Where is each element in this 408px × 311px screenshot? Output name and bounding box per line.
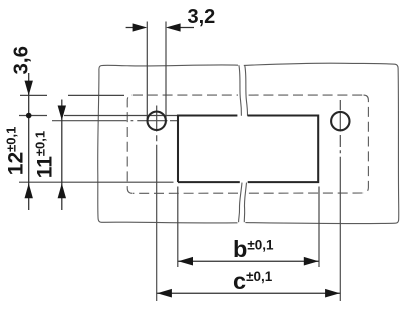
arrow 3,2 left [133,23,148,31]
cutout rectangle [178,116,318,183]
extension line dashed-top reference y=95.4 [20,94,124,96]
dimension line c [157,292,341,294]
extension line cutout-top reference y=115.5 [19,115,178,117]
arrow 3,6 down [25,81,33,96]
arrow 11 down [58,106,66,121]
dimension line 11 [61,100,63,211]
break line bottom right [244,183,246,223]
arrow b left [178,257,193,266]
extension line b left x=177.8 [177,187,179,268]
dot terminator 12 top [26,113,32,119]
horizontal centerline left hole [52,120,178,122]
hole H2 right [331,112,349,130]
arrow b right [304,257,319,266]
extension line hole tangent left x=147.3 [146,22,148,120]
svg-text:3,6: 3,6 [10,46,33,75]
arrow c left [157,289,172,298]
extension line b right x=319 [318,187,320,268]
svg-text:3,2: 3,2 [188,6,216,28]
extension line hole tangent right x=166 [165,22,167,120]
arrow 11 up [58,183,66,198]
extension line cutout-bottom reference y=182 [19,181,174,183]
break line bottom left [239,183,242,223]
arrow 3,2 right [166,23,181,31]
arrow c right [325,289,340,298]
panel right half outline [244,63,399,223]
dimension line 3,6 / 12 shared [28,73,30,210]
dimension line b [178,260,319,262]
panel left half outline [98,65,238,223]
vertical centerline left hole [156,106,158,302]
arrow 12 up [25,183,33,198]
dimension line 3,2 [126,27,194,29]
dashed clearance outline [127,95,368,193]
vertical centerline right hole [339,100,341,301]
break line top right [245,66,248,116]
hole H1 left [148,112,166,130]
break line top left [239,65,242,116]
